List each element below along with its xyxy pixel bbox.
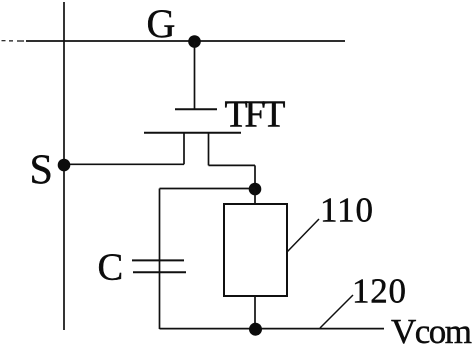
label G (147, 1, 176, 46)
transistor TFT gate bar (175, 108, 217, 110)
capacitor C top plate (132, 259, 184, 261)
svg-text:S: S (30, 148, 53, 194)
label TFT (225, 93, 286, 135)
wire node to rectangle top (254, 189, 256, 204)
svg-text:Vcom: Vcom (391, 312, 472, 345)
node S junction (58, 159, 71, 172)
wire drain horizontal (209, 164, 256, 166)
svg-text:110: 110 (320, 191, 373, 230)
label 110 (320, 191, 373, 230)
label Vcom (391, 312, 472, 345)
wire leader line for 110 (287, 219, 319, 252)
wire capacitor branch vertical (159, 189, 161, 330)
wire leader line for 120 (320, 295, 353, 328)
label S (30, 148, 53, 194)
svg-text:G: G (147, 1, 176, 46)
transistor TFT channel bar (144, 132, 241, 134)
wire gate line G (horizontal bus) (2, 40, 346, 42)
wire pixel node to capacitor branch (160, 188, 256, 190)
wire drain down to pixel node (254, 165, 256, 189)
wire Vcom line 120 (160, 328, 385, 330)
LC element 110 rectangle (224, 204, 287, 296)
svg-text:C: C (98, 246, 124, 288)
node pixel electrode junction (249, 183, 262, 196)
wire rectangle bottom to Vcom line (254, 296, 256, 329)
wire gate stem (194, 42, 196, 109)
node Vcom junction (249, 323, 262, 336)
svg-text:TFT: TFT (225, 93, 286, 135)
wire source to S bus (64, 163, 184, 165)
node gate junction (188, 35, 201, 48)
transistor TFT source contact (183, 133, 185, 165)
wire source line S (vertical bus) (63, 2, 65, 330)
label 120 (352, 272, 406, 311)
capacitor C bottom plate (133, 271, 186, 273)
svg-text:120: 120 (352, 272, 406, 311)
transistor TFT drain contact (208, 133, 210, 166)
label C (98, 246, 124, 288)
